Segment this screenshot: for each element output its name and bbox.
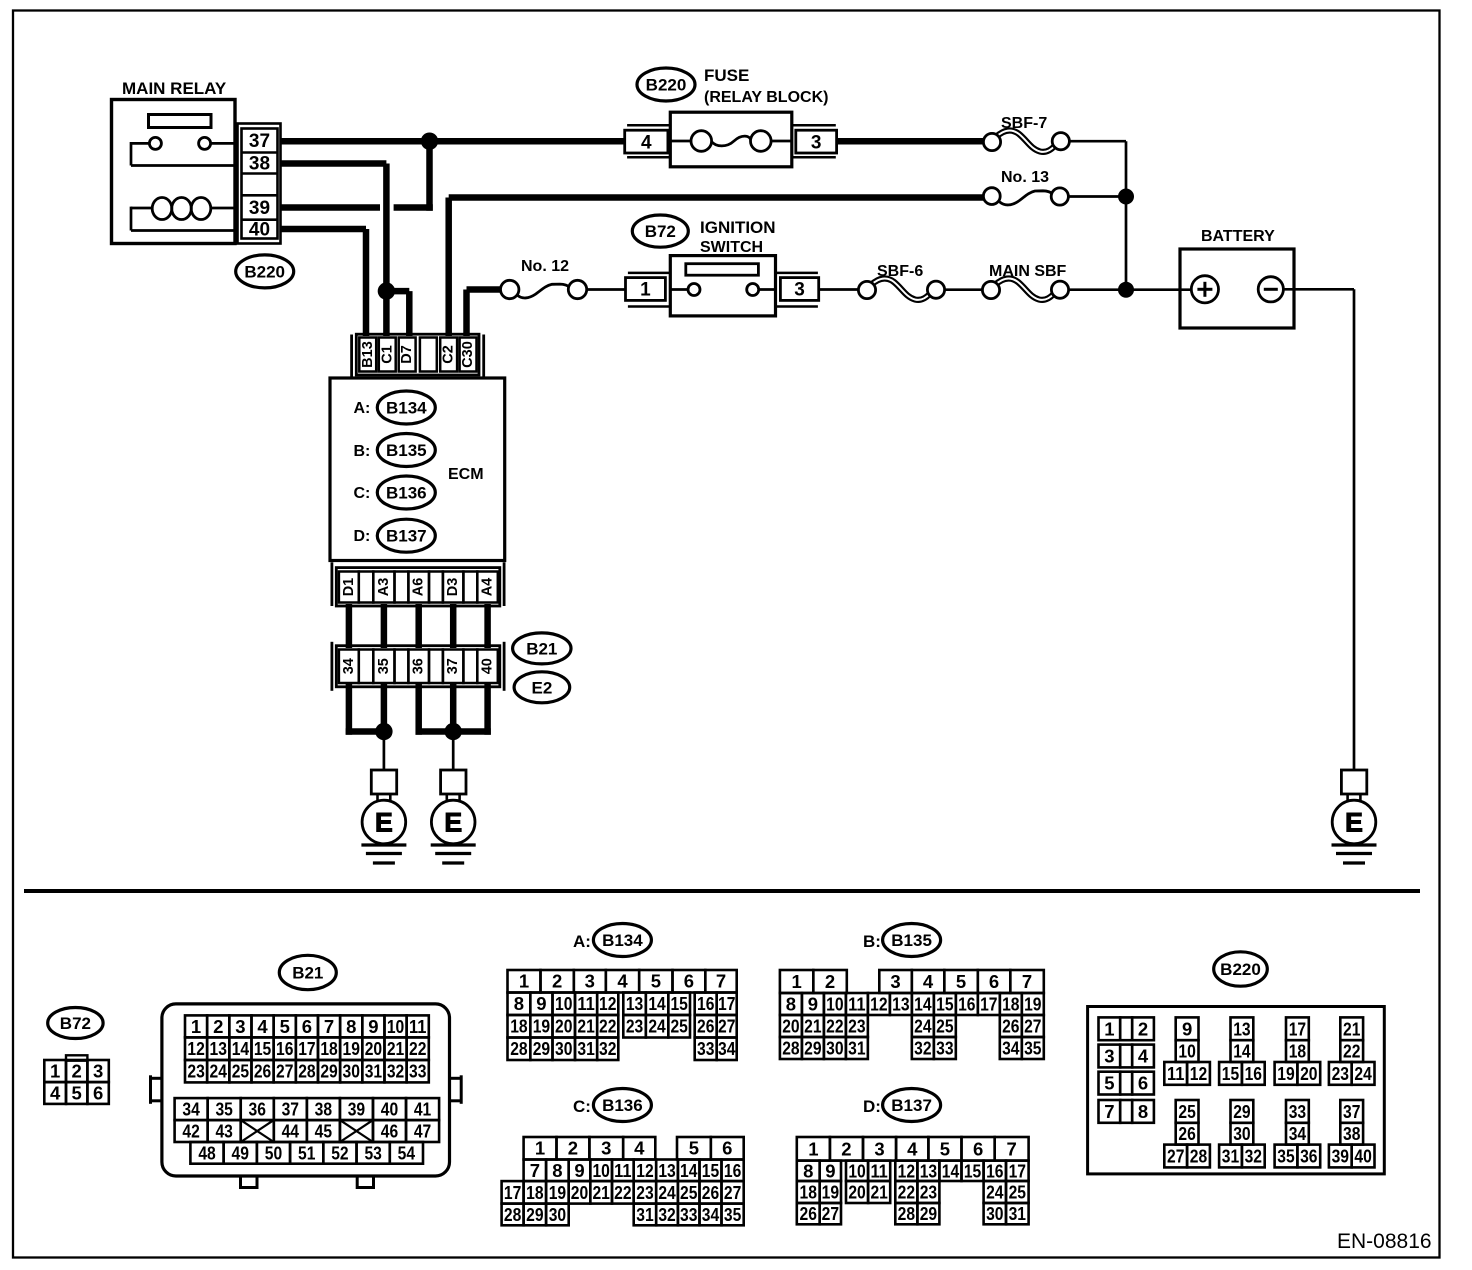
svg-text:C:: C: — [573, 1097, 591, 1116]
ECM pin cell D7 — [399, 338, 416, 372]
svg-text:25: 25 — [680, 1182, 697, 1203]
svg-text:22: 22 — [898, 1181, 915, 1202]
svg-text:17: 17 — [504, 1182, 521, 1203]
svg-text:3: 3 — [1104, 1045, 1114, 1066]
body connector pin cell 35 — [373, 650, 394, 684]
connector B220 cluster pins 29-32 — [1231, 1100, 1254, 1123]
svg-text:16: 16 — [697, 993, 714, 1014]
svg-text:B21: B21 — [292, 963, 323, 982]
svg-text:1: 1 — [640, 280, 651, 301]
body connector pin cell spacer — [395, 650, 409, 684]
wire ignition pin3 to SBF-6 — [819, 288, 859, 291]
body connector box — [336, 646, 500, 687]
svg-text:1: 1 — [791, 971, 801, 992]
svg-text:11: 11 — [1167, 1063, 1184, 1084]
svg-text:E: E — [444, 807, 462, 837]
svg-text:52: 52 — [331, 1142, 348, 1163]
ignition switch contact left — [688, 284, 700, 296]
svg-text:6: 6 — [989, 971, 999, 992]
svg-text:19: 19 — [549, 1182, 566, 1203]
svg-text:6: 6 — [973, 1138, 983, 1159]
svg-text:11: 11 — [409, 1016, 426, 1037]
svg-text:31: 31 — [365, 1061, 382, 1082]
battery minus terminal — [1258, 277, 1283, 302]
svg-text:19: 19 — [533, 1016, 550, 1037]
svg-text:10: 10 — [1178, 1041, 1195, 1062]
svg-text:A:: A: — [354, 400, 371, 417]
ECM top connector box — [356, 334, 479, 375]
svg-text:9: 9 — [1182, 1018, 1192, 1039]
svg-text:32: 32 — [599, 1038, 616, 1059]
svg-text:39: 39 — [348, 1099, 365, 1120]
svg-text:5: 5 — [956, 971, 966, 992]
connector B220 cluster pins 13-16 — [1231, 1017, 1254, 1040]
svg-text:12: 12 — [187, 1038, 204, 1059]
svg-text:16: 16 — [1245, 1063, 1262, 1084]
connector B220 cluster pins 9-12 — [1176, 1017, 1199, 1040]
svg-text:23: 23 — [1332, 1063, 1349, 1084]
svg-text:1: 1 — [191, 1016, 201, 1037]
wire pin35 to ground bus — [381, 684, 388, 732]
svg-text:4: 4 — [923, 971, 934, 992]
svg-text:23: 23 — [187, 1061, 204, 1082]
svg-text:5: 5 — [940, 1138, 950, 1159]
svg-text:3: 3 — [601, 1138, 611, 1159]
connector B72 oval (bottom) — [48, 1008, 103, 1039]
svg-text:21: 21 — [387, 1038, 404, 1059]
svg-text:20: 20 — [365, 1038, 382, 1059]
main relay box — [112, 100, 236, 244]
ignition pin 1 flanges — [628, 272, 670, 275]
svg-text:39: 39 — [1332, 1145, 1349, 1166]
svg-text:10: 10 — [387, 1016, 404, 1037]
svg-text:32: 32 — [658, 1204, 675, 1225]
svg-text:E: E — [375, 807, 393, 837]
fusible link SBF-7 — [996, 131, 1055, 152]
svg-text:39: 39 — [249, 198, 270, 219]
svg-text:34: 34 — [1002, 1037, 1020, 1058]
svg-text:1: 1 — [519, 971, 529, 992]
wire pin40 to ECM B13 — [281, 226, 367, 233]
ground E neck — [445, 794, 448, 802]
ignition pin 3 box — [780, 278, 818, 301]
svg-text:29: 29 — [526, 1204, 543, 1225]
svg-text:14: 14 — [914, 993, 932, 1014]
ECM bottom pin cell spacer — [429, 572, 443, 603]
svg-text:8: 8 — [552, 1160, 562, 1181]
fuse block pin 3 box — [796, 130, 837, 153]
svg-text:FUSE: FUSE — [704, 66, 749, 85]
connector B220 cluster pins 33-36 — [1286, 1100, 1309, 1123]
svg-text:2: 2 — [1138, 1018, 1148, 1039]
svg-text:6: 6 — [722, 1138, 732, 1159]
svg-text:5: 5 — [72, 1082, 82, 1103]
ECM pin cell blank — [420, 338, 437, 372]
svg-text:14: 14 — [680, 1160, 698, 1181]
svg-text:11: 11 — [614, 1160, 631, 1181]
svg-text:15: 15 — [670, 993, 687, 1014]
connector B134 pin grid — [508, 970, 541, 993]
svg-text:15: 15 — [1222, 1063, 1239, 1084]
wire branch to ECM D7 — [386, 288, 409, 295]
svg-text:46: 46 — [381, 1121, 398, 1142]
body connector pin cell 36 — [408, 650, 429, 684]
body connector pin cell 34 — [339, 650, 359, 684]
svg-text:26: 26 — [702, 1182, 719, 1203]
svg-text:2: 2 — [213, 1016, 223, 1037]
svg-text:30: 30 — [1233, 1123, 1250, 1144]
svg-text:54: 54 — [398, 1142, 416, 1163]
svg-text:13: 13 — [920, 1160, 937, 1181]
svg-text:D7: D7 — [399, 345, 415, 364]
svg-text:27: 27 — [822, 1203, 839, 1224]
svg-text:28: 28 — [782, 1037, 799, 1058]
body connector pin cell spacer — [359, 650, 374, 684]
svg-text:29: 29 — [1233, 1101, 1250, 1122]
ignition switch contact right — [747, 284, 759, 296]
fuse block pin 4 flanges — [627, 124, 670, 127]
svg-text:E2: E2 — [532, 678, 553, 697]
svg-text:8: 8 — [346, 1016, 356, 1037]
wire pin38 to ECM C1 — [281, 160, 387, 167]
svg-text:16: 16 — [958, 993, 975, 1014]
ground hatching — [1332, 843, 1377, 846]
ignition pin 3 flanges — [776, 272, 818, 275]
ground E circle — [431, 800, 475, 844]
ECM bottom pin cell spacer — [463, 572, 477, 603]
svg-text:19: 19 — [343, 1038, 360, 1059]
svg-text:A6: A6 — [411, 578, 427, 597]
svg-text:1: 1 — [808, 1138, 818, 1159]
svg-text:ECM: ECM — [448, 466, 484, 483]
relay coil — [152, 198, 211, 220]
svg-text:18: 18 — [800, 1181, 817, 1202]
ignition switch contact wiring — [670, 288, 688, 291]
svg-text:12: 12 — [599, 993, 616, 1014]
svg-text:7: 7 — [1104, 1101, 1114, 1122]
svg-text:8: 8 — [514, 993, 524, 1014]
fuse element circle right — [751, 131, 772, 152]
svg-text:7: 7 — [716, 971, 726, 992]
connector B220 oval (below main relay) — [236, 255, 294, 288]
svg-text:B135: B135 — [386, 441, 427, 460]
svg-text:44: 44 — [282, 1121, 300, 1142]
connector block B220 pins 37-40 inner — [242, 129, 278, 239]
fuse No. 13 — [1000, 191, 1054, 205]
svg-text:43: 43 — [215, 1121, 232, 1142]
svg-text:31: 31 — [636, 1204, 653, 1225]
svg-text:28: 28 — [504, 1204, 521, 1225]
svg-text:8: 8 — [786, 993, 796, 1014]
svg-text:21: 21 — [804, 1015, 821, 1036]
svg-text:10: 10 — [555, 993, 572, 1014]
ECM pin cell C30 — [460, 338, 477, 372]
wire pin36 to ground bus — [415, 684, 422, 735]
svg-text:13: 13 — [658, 1160, 675, 1181]
svg-text:12: 12 — [898, 1160, 915, 1181]
fuse No. 12 — [517, 284, 570, 298]
svg-text:C2: C2 — [441, 345, 457, 364]
svg-text:31: 31 — [577, 1038, 594, 1059]
svg-text:6: 6 — [684, 971, 694, 992]
ground E terminal square — [1341, 770, 1366, 794]
svg-text:1: 1 — [1104, 1018, 1114, 1039]
svg-text:31: 31 — [1009, 1203, 1026, 1224]
svg-text:4: 4 — [641, 132, 652, 153]
wires ECM pins to body connector — [346, 604, 353, 648]
svg-text:22: 22 — [614, 1182, 631, 1203]
svg-text:7: 7 — [1007, 1138, 1017, 1159]
connector B21 pin grid rows 34-47 — [175, 1098, 208, 1120]
svg-text:13: 13 — [892, 993, 909, 1014]
svg-text:32: 32 — [387, 1061, 404, 1082]
svg-text:28: 28 — [298, 1061, 315, 1082]
svg-text:15: 15 — [964, 1160, 981, 1181]
wire ECM C2 to fuse No.13 — [445, 198, 452, 337]
relay contact left — [149, 137, 161, 149]
svg-text:21: 21 — [577, 1016, 594, 1037]
svg-text:A4: A4 — [480, 578, 496, 597]
ECM bottom pin cell D3 — [443, 572, 464, 603]
svg-text:B135: B135 — [891, 931, 932, 950]
svg-text:9: 9 — [574, 1160, 584, 1181]
svg-text:47: 47 — [414, 1121, 431, 1142]
svg-text:6: 6 — [93, 1082, 103, 1103]
svg-text:D3: D3 — [445, 578, 461, 597]
svg-text:31: 31 — [848, 1037, 865, 1058]
svg-text:B220: B220 — [646, 75, 687, 94]
svg-text:30: 30 — [826, 1037, 843, 1058]
svg-text:16: 16 — [276, 1038, 293, 1059]
svg-text:32: 32 — [914, 1037, 931, 1058]
svg-text:18: 18 — [1002, 993, 1019, 1014]
svg-text:20: 20 — [848, 1181, 865, 1202]
svg-text:36: 36 — [249, 1099, 266, 1120]
svg-text:29: 29 — [920, 1203, 937, 1224]
svg-text:4: 4 — [634, 1138, 645, 1159]
svg-text:33: 33 — [697, 1038, 714, 1059]
junction dot ground bus left — [375, 723, 392, 740]
connector B21 right tab — [450, 1077, 462, 1080]
svg-text:No. 12: No. 12 — [521, 258, 569, 275]
svg-text:B13: B13 — [360, 341, 376, 368]
fusible link MAIN SBF — [995, 279, 1054, 300]
connector B21 bottom tabs — [241, 1176, 258, 1188]
svg-text:B136: B136 — [386, 483, 427, 502]
svg-text:32: 32 — [1245, 1145, 1262, 1166]
svg-text:16: 16 — [986, 1160, 1003, 1181]
svg-text:29: 29 — [320, 1061, 337, 1082]
ground E neck — [1346, 794, 1349, 802]
svg-text:17: 17 — [718, 993, 735, 1014]
svg-text:2: 2 — [568, 1138, 578, 1159]
svg-text:13: 13 — [626, 993, 643, 1014]
svg-text:1: 1 — [50, 1061, 60, 1082]
connector B21 pin grid row 48-54 — [190, 1142, 223, 1164]
svg-text:30: 30 — [549, 1204, 566, 1225]
svg-text:E: E — [1345, 807, 1363, 837]
svg-text:24: 24 — [210, 1061, 228, 1082]
svg-text:20: 20 — [1300, 1063, 1317, 1084]
ground E terminal square — [371, 770, 396, 794]
svg-text:27: 27 — [718, 1016, 735, 1037]
svg-text:No. 13: No. 13 — [1001, 169, 1049, 186]
svg-text:25: 25 — [232, 1061, 249, 1082]
wire fuse pin3 to SBF-7 — [837, 138, 984, 145]
svg-text:29: 29 — [533, 1038, 550, 1059]
body connector pin cell spacer — [429, 650, 443, 684]
body connector pin cell 37 — [443, 650, 464, 684]
svg-text:33: 33 — [1289, 1101, 1306, 1122]
connector B220 cluster pins 17-20 — [1286, 1017, 1309, 1040]
svg-text:26: 26 — [254, 1061, 271, 1082]
svg-text:16: 16 — [724, 1160, 741, 1181]
svg-text:5: 5 — [689, 1138, 699, 1159]
svg-text:34: 34 — [702, 1204, 720, 1225]
ignition switch B72 oval — [632, 215, 688, 247]
svg-text:51: 51 — [298, 1142, 315, 1163]
svg-text:11: 11 — [848, 993, 865, 1014]
connector B137 pin grid — [797, 1137, 830, 1161]
svg-text:37: 37 — [1343, 1101, 1360, 1122]
wire SBF-7 to battery node — [1069, 140, 1126, 143]
svg-text:36: 36 — [1300, 1145, 1317, 1166]
battery plus terminal — [1191, 276, 1218, 303]
svg-text:14: 14 — [1233, 1041, 1251, 1062]
svg-text:9: 9 — [536, 993, 546, 1014]
svg-text:7: 7 — [324, 1016, 334, 1037]
connector block B220 pins 37-40 outer — [238, 124, 281, 244]
svg-text:35: 35 — [215, 1099, 232, 1120]
svg-text:30: 30 — [343, 1061, 360, 1082]
svg-text:17: 17 — [1009, 1160, 1026, 1181]
svg-text:38: 38 — [249, 154, 270, 175]
svg-text:3: 3 — [890, 971, 900, 992]
svg-text:5: 5 — [651, 971, 661, 992]
svg-text:3: 3 — [235, 1016, 245, 1037]
svg-text:SWITCH: SWITCH — [700, 239, 763, 256]
connector B220 oval (bottom) — [1214, 952, 1268, 986]
fuse block pin 3 flanges — [792, 124, 836, 127]
svg-text:10: 10 — [592, 1160, 609, 1181]
svg-text:17: 17 — [298, 1038, 315, 1059]
svg-text:35: 35 — [1277, 1145, 1294, 1166]
svg-text:25: 25 — [936, 1015, 953, 1036]
svg-text:31: 31 — [1222, 1145, 1239, 1166]
fuse block pin 4 box — [625, 130, 668, 153]
ECM bottom pin cell spacer — [359, 572, 374, 603]
svg-text:28: 28 — [510, 1038, 527, 1059]
svg-text:D:: D: — [863, 1097, 881, 1116]
body connector side bars — [330, 642, 333, 691]
wire ECM C30 to fuse No.12 — [463, 290, 470, 337]
svg-text:6: 6 — [302, 1016, 312, 1037]
svg-text:18: 18 — [510, 1016, 527, 1037]
svg-text:23: 23 — [626, 1016, 643, 1037]
svg-text:18: 18 — [1289, 1041, 1306, 1062]
fuse block body — [670, 112, 792, 167]
ECM pin cell B13 — [359, 338, 376, 372]
svg-text:27: 27 — [724, 1182, 741, 1203]
svg-text:24: 24 — [986, 1181, 1004, 1202]
svg-text:15: 15 — [702, 1160, 719, 1181]
wire ground bus left to ground E1 — [383, 732, 386, 772]
svg-text:22: 22 — [599, 1016, 616, 1037]
svg-text:13: 13 — [210, 1038, 227, 1059]
connector B21 oval (bottom) — [279, 955, 336, 989]
ground E circle — [362, 800, 406, 844]
body connector pin cell spacer — [463, 650, 477, 684]
svg-text:26: 26 — [1178, 1123, 1195, 1144]
svg-text:4: 4 — [1138, 1045, 1149, 1066]
ECM pin cell C2 — [440, 338, 457, 372]
svg-text:B72: B72 — [645, 222, 676, 241]
svg-text:D:: D: — [354, 528, 371, 545]
svg-text:C:: C: — [354, 485, 371, 502]
svg-text:4: 4 — [907, 1138, 918, 1159]
svg-text:19: 19 — [1024, 993, 1041, 1014]
svg-text:D1: D1 — [341, 578, 357, 597]
svg-text:4: 4 — [617, 971, 628, 992]
svg-text:45: 45 — [315, 1121, 332, 1142]
svg-text:19: 19 — [822, 1181, 839, 1202]
connector B21 pin grid rows 1-33 — [185, 1015, 207, 1037]
connector B72 pin grid — [66, 1055, 87, 1060]
ground hatching — [361, 843, 406, 846]
svg-text:40: 40 — [480, 658, 496, 674]
svg-text:41: 41 — [414, 1099, 431, 1120]
svg-text:27: 27 — [276, 1061, 293, 1082]
ignition pin 1 box — [626, 278, 666, 301]
svg-text:24: 24 — [658, 1182, 676, 1203]
relay contact right — [199, 137, 211, 149]
svg-text:A:: A: — [573, 932, 591, 951]
wire pin37 to ground bus — [450, 684, 457, 732]
fuse element wire — [670, 140, 691, 143]
svg-text:B220: B220 — [1220, 960, 1261, 979]
ECM bottom pin cell spacer — [395, 572, 409, 603]
svg-text:27: 27 — [1024, 1015, 1041, 1036]
svg-text:9: 9 — [808, 993, 818, 1014]
svg-text:3: 3 — [794, 280, 805, 301]
svg-text:34: 34 — [718, 1038, 736, 1059]
relay contact wiring — [131, 142, 149, 145]
wire MAIN SBF to battery — [1069, 288, 1192, 291]
svg-text:8: 8 — [803, 1160, 813, 1181]
svg-text:29: 29 — [804, 1037, 821, 1058]
ECM bottom connector side bars — [330, 562, 333, 606]
svg-text:24: 24 — [1354, 1063, 1372, 1084]
svg-text:42: 42 — [182, 1121, 199, 1142]
svg-text:IGNITION: IGNITION — [700, 218, 776, 237]
svg-text:22: 22 — [409, 1038, 426, 1059]
svg-text:2: 2 — [72, 1061, 82, 1082]
svg-text:19: 19 — [1277, 1063, 1294, 1084]
svg-text:12: 12 — [870, 993, 887, 1014]
svg-text:37: 37 — [282, 1099, 299, 1120]
svg-text:40: 40 — [1354, 1145, 1371, 1166]
svg-text:34: 34 — [182, 1099, 200, 1120]
svg-text:33: 33 — [680, 1204, 697, 1225]
connector B220 cluster pins 37-40 — [1340, 1100, 1363, 1123]
ground hatching — [431, 843, 476, 846]
svg-text:35: 35 — [724, 1204, 741, 1225]
svg-text:B134: B134 — [602, 931, 643, 950]
svg-text:23: 23 — [636, 1182, 653, 1203]
svg-text:5: 5 — [280, 1016, 290, 1037]
wire pin34 to ground bus — [346, 684, 353, 735]
svg-text:23: 23 — [848, 1015, 865, 1036]
